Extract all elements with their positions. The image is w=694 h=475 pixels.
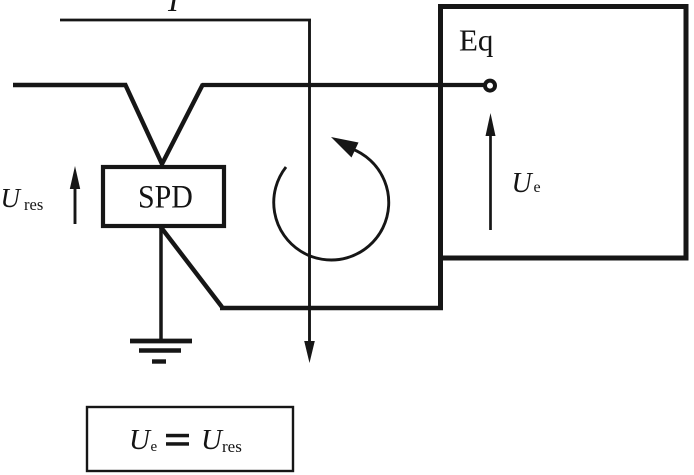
wire left conductor [13, 83, 127, 88]
wire riser to Eq box [438, 254, 443, 310]
wire diagonal SPD to bottom conductor [160, 226, 222, 307]
label formula Ue = Ures [129, 424, 242, 456]
svg-text:U: U [129, 424, 152, 456]
svg-text:res: res [24, 195, 43, 214]
svg-text:U: U [512, 168, 534, 199]
svg-text:U: U [1, 183, 22, 213]
wire SPD to ground [159, 226, 163, 342]
svg-text:I: I [167, 0, 180, 18]
label Ures [1, 183, 44, 214]
arrow Ures (voltage arrow up) [70, 166, 80, 224]
formula box Ue = Ures [87, 407, 293, 471]
node terminal circle at Eq input [485, 81, 495, 91]
wire bottom conductor [220, 306, 443, 310]
wire V drop to SPD [125, 84, 203, 164]
svg-text:res: res [222, 437, 242, 456]
ground [130, 341, 192, 362]
label Ue [512, 168, 541, 199]
svg-text:Eq: Eq [459, 23, 493, 58]
svg-text:e: e [534, 179, 541, 196]
equipment box Eq [441, 7, 687, 259]
arrow Ue (voltage arrow up) [486, 113, 496, 230]
loop arrow induced circulating current [274, 137, 389, 260]
svg-text:e: e [151, 439, 158, 455]
wire right conductor to Eq terminal [202, 83, 485, 87]
svg-text:SPD: SPD [138, 178, 193, 214]
SPD box [103, 167, 224, 226]
wire vertical current path through loop [308, 20, 311, 343]
arrowhead current direction down [304, 341, 315, 363]
wire top line [60, 19, 311, 22]
svg-text:U: U [201, 424, 224, 456]
